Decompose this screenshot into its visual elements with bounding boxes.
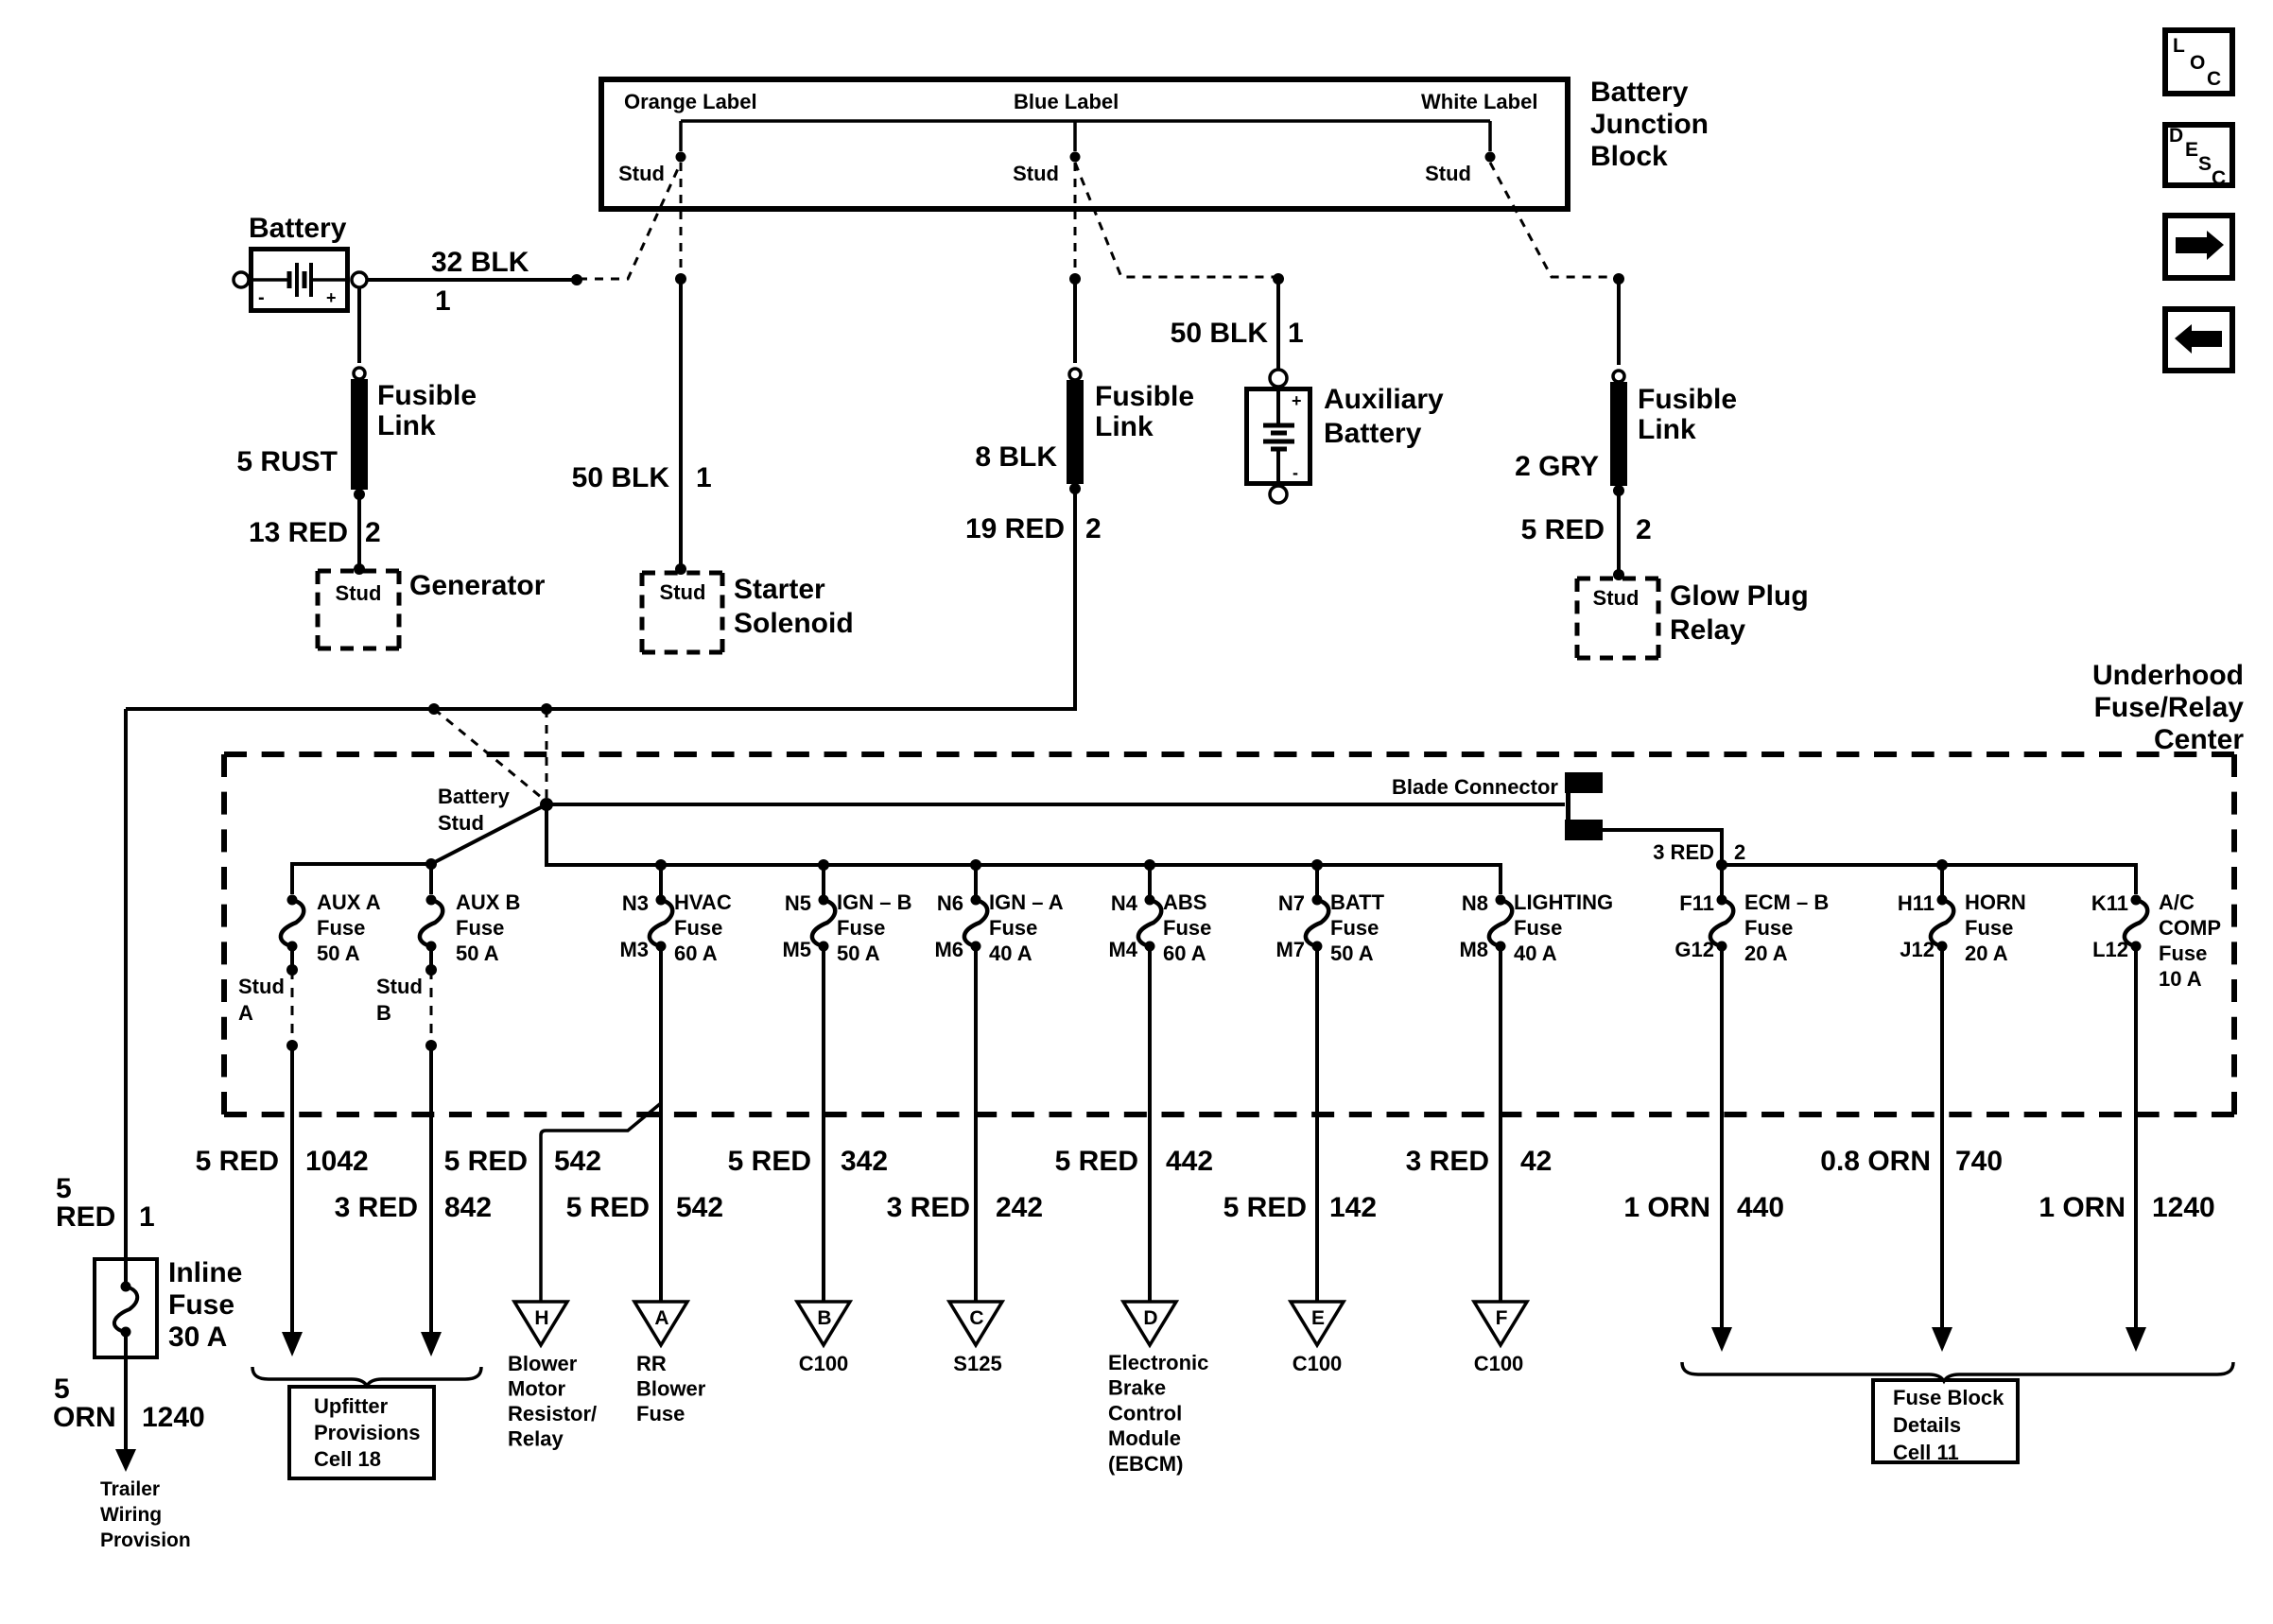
svg-text:10 A: 10 A xyxy=(2159,967,2202,991)
svg-text:5 RED: 5 RED xyxy=(1223,1192,1307,1223)
svg-text:5 RUST: 5 RUST xyxy=(236,446,338,477)
wire 8 BLK xyxy=(975,279,1075,473)
svg-text:5 RED: 5 RED xyxy=(1055,1146,1138,1177)
label 0.8 ORN 740 xyxy=(1820,1146,2003,1177)
svg-text:Motor: Motor xyxy=(508,1377,566,1401)
auxiliary battery label xyxy=(1324,384,1444,449)
svg-text:L12: L12 xyxy=(2092,938,2128,961)
svg-text:Relay: Relay xyxy=(1670,614,1745,646)
label 5 RED 1 xyxy=(56,1173,155,1233)
svg-text:Solenoid: Solenoid xyxy=(734,608,854,639)
svg-text:440: 440 xyxy=(1737,1192,1784,1223)
svg-text:13 RED: 13 RED xyxy=(249,517,348,548)
svg-text:3 RED: 3 RED xyxy=(1406,1146,1489,1177)
svg-text:M5: M5 xyxy=(782,938,811,961)
svg-text:3 RED: 3 RED xyxy=(1653,840,1714,864)
bus wire to fuse row xyxy=(547,804,1501,894)
wire 5 RED 342 xyxy=(822,946,825,1302)
blade connector xyxy=(1392,772,1603,840)
svg-text:Fuse: Fuse xyxy=(1514,916,1562,940)
svg-text:Fuse/Relay: Fuse/Relay xyxy=(2094,692,2245,723)
svg-text:Wiring: Wiring xyxy=(100,1504,162,1526)
svg-text:5 RED: 5 RED xyxy=(196,1146,279,1177)
svg-text:Auxiliary: Auxiliary xyxy=(1324,384,1444,415)
svg-text:1: 1 xyxy=(435,285,451,317)
svg-text:32 BLK: 32 BLK xyxy=(431,247,529,278)
bus wire to blade connector xyxy=(547,803,1565,806)
starter solenoid label xyxy=(734,574,854,639)
generator label xyxy=(409,570,546,601)
svg-text:Brake: Brake xyxy=(1108,1376,1166,1400)
wire 3 RED 2 from blade connector xyxy=(1603,830,1745,865)
svg-text:G12: G12 xyxy=(1674,938,1714,961)
stud A link xyxy=(238,946,298,1051)
battery junction block title xyxy=(1590,77,1709,172)
glow plug relay label xyxy=(1670,580,1809,646)
svg-text:Blower: Blower xyxy=(636,1377,706,1401)
svg-text:242: 242 xyxy=(996,1192,1043,1223)
svg-text:Cell 11: Cell 11 xyxy=(1893,1441,1959,1464)
svg-text:ORN: ORN xyxy=(53,1402,116,1433)
svg-text:1 ORN: 1 ORN xyxy=(2039,1192,2126,1223)
wire 5 RED 542 to A xyxy=(659,946,663,1302)
svg-text:Glow Plug: Glow Plug xyxy=(1670,580,1809,612)
svg-text:HORN: HORN xyxy=(1965,890,2026,914)
svg-text:Fuse: Fuse xyxy=(456,916,504,940)
svg-text:442: 442 xyxy=(1166,1146,1213,1177)
svg-text:C: C xyxy=(969,1307,983,1329)
svg-text:N3: N3 xyxy=(622,891,649,915)
dashed link orange stud down xyxy=(675,163,686,285)
fuse HVAC xyxy=(619,859,731,965)
svg-text:Fuse Block: Fuse Block xyxy=(1893,1386,2004,1409)
connector C xyxy=(949,1302,1002,1375)
fuse ECM - B xyxy=(1674,865,1829,965)
svg-text:RR: RR xyxy=(636,1352,667,1375)
dashed link blue stud to aux battery xyxy=(1075,163,1284,285)
svg-text:50 BLK: 50 BLK xyxy=(1171,318,1269,349)
svg-text:Fuse: Fuse xyxy=(1330,916,1379,940)
svg-text:BATT: BATT xyxy=(1330,890,1385,914)
connector A xyxy=(634,1302,706,1425)
svg-text:+: + xyxy=(1292,391,1302,410)
svg-text:AUX B: AUX B xyxy=(456,890,520,914)
svg-text:1240: 1240 xyxy=(142,1402,205,1433)
label 3 RED 242 xyxy=(887,1192,1043,1223)
label 5 RED 342 xyxy=(728,1146,888,1177)
stud B link xyxy=(376,946,437,1051)
svg-text:142: 142 xyxy=(1329,1192,1377,1223)
svg-text:2 GRY: 2 GRY xyxy=(1515,451,1599,482)
svg-text:M4: M4 xyxy=(1108,938,1137,961)
svg-text:C100: C100 xyxy=(1293,1352,1343,1375)
dashed link top wire to battery stud diagonal xyxy=(434,709,547,802)
svg-text:8 BLK: 8 BLK xyxy=(975,441,1057,473)
svg-text:30 A: 30 A xyxy=(168,1322,227,1353)
svg-text:C: C xyxy=(2207,68,2221,90)
svg-text:Fusible: Fusible xyxy=(1638,384,1737,415)
svg-text:N7: N7 xyxy=(1278,891,1305,915)
wire 3 RED 42 xyxy=(1499,946,1502,1302)
svg-text:50 A: 50 A xyxy=(837,942,880,965)
upfitter brace xyxy=(252,1367,481,1386)
label 5 RED 542 (A branch) xyxy=(566,1192,723,1223)
fuse block details box xyxy=(1873,1380,2018,1464)
svg-text:Stud: Stud xyxy=(438,811,484,835)
wire 5 RED 2 glow xyxy=(1521,492,1652,580)
battery junction block xyxy=(601,79,1568,209)
svg-text:1: 1 xyxy=(696,462,712,493)
svg-text:F11: F11 xyxy=(1679,891,1714,915)
svg-text:50 A: 50 A xyxy=(1330,942,1374,965)
svg-text:AUX A: AUX A xyxy=(317,890,381,914)
fuse A/C xyxy=(2091,890,2221,991)
svg-text:42: 42 xyxy=(1520,1146,1552,1177)
svg-text:5: 5 xyxy=(54,1373,70,1405)
svg-text:L: L xyxy=(2173,35,2185,57)
svg-text:Cell 18: Cell 18 xyxy=(314,1447,381,1471)
svg-text:S: S xyxy=(2198,153,2212,175)
svg-text:F: F xyxy=(1496,1307,1508,1329)
svg-text:Stud: Stud xyxy=(618,162,665,185)
svg-text:50 A: 50 A xyxy=(317,942,360,965)
svg-text:20 A: 20 A xyxy=(1965,942,2008,965)
wire 19 RED 2 xyxy=(126,490,1102,709)
svg-text:Stud: Stud xyxy=(336,581,382,605)
wire 50 BLK 1 to starter xyxy=(572,279,712,575)
wire 1 ORN 440 xyxy=(1711,946,1732,1352)
fuse HORN xyxy=(1898,865,2026,965)
dashed link battery to orange stud xyxy=(579,163,681,279)
right bus wire xyxy=(1716,859,2136,894)
svg-text:Control: Control xyxy=(1108,1401,1182,1425)
svg-text:5: 5 xyxy=(56,1173,72,1204)
label 1 ORN 1240 xyxy=(2039,1192,2214,1223)
svg-text:842: 842 xyxy=(444,1192,492,1223)
dashed link white stud to glow plug xyxy=(1490,163,1624,285)
wire 0.8 ORN 740 xyxy=(1932,946,1952,1352)
arrow left icon xyxy=(2165,309,2232,371)
svg-text:M8: M8 xyxy=(1459,938,1488,961)
svg-text:+: + xyxy=(326,288,337,307)
fusible link F2 xyxy=(1067,369,1194,494)
connector F xyxy=(1474,1302,1527,1375)
fuse BATT xyxy=(1275,859,1384,965)
svg-text:N5: N5 xyxy=(785,891,811,915)
svg-text:542: 542 xyxy=(676,1192,723,1223)
svg-text:342: 342 xyxy=(841,1146,888,1177)
svg-text:M3: M3 xyxy=(619,938,649,961)
svg-text:White Label: White Label xyxy=(1421,90,1537,113)
svg-text:M7: M7 xyxy=(1275,938,1305,961)
svg-text:D: D xyxy=(2169,125,2183,147)
wire 5 RED 442 xyxy=(1148,946,1152,1302)
svg-text:Stud: Stud xyxy=(1593,586,1640,610)
auxiliary battery xyxy=(1247,370,1310,503)
svg-text:Fuse: Fuse xyxy=(168,1289,234,1321)
svg-text:19 RED: 19 RED xyxy=(965,513,1065,544)
svg-text:Link: Link xyxy=(377,410,436,441)
svg-text:Starter: Starter xyxy=(734,574,825,605)
svg-text:5 RED: 5 RED xyxy=(566,1192,650,1223)
svg-text:1 ORN: 1 ORN xyxy=(1623,1192,1710,1223)
svg-text:Stud: Stud xyxy=(1425,162,1471,185)
dashed link top wire to battery stud vertical xyxy=(546,709,548,799)
svg-text:542: 542 xyxy=(554,1146,601,1177)
trailer wiring provision label xyxy=(100,1478,191,1551)
svg-text:Electronic: Electronic xyxy=(1108,1351,1208,1374)
label 5 RED 1042 xyxy=(196,1146,369,1177)
svg-text:Fuse: Fuse xyxy=(989,916,1037,940)
wire 5 RED 542 to H xyxy=(541,1103,661,1302)
svg-text:Upfitter: Upfitter xyxy=(314,1394,389,1418)
inline fuse 30A xyxy=(95,1257,242,1357)
label 5 RED 442 xyxy=(1055,1146,1213,1177)
svg-text:K11: K11 xyxy=(2091,891,2128,915)
svg-text:Battery: Battery xyxy=(249,213,347,244)
label 3 RED 42 xyxy=(1406,1146,1553,1177)
svg-text:Fuse: Fuse xyxy=(1163,916,1211,940)
svg-text:Orange Label: Orange Label xyxy=(624,90,757,113)
svg-text:1: 1 xyxy=(1288,318,1304,349)
svg-text:5 RED: 5 RED xyxy=(1521,514,1605,545)
generator stud box xyxy=(318,571,399,648)
wire 1 ORN 1240 xyxy=(2126,946,2146,1352)
svg-text:H11: H11 xyxy=(1898,891,1935,915)
fuse LIGHTING xyxy=(1459,890,1613,965)
fuse AUX A 50A xyxy=(281,890,381,965)
svg-text:Battery: Battery xyxy=(438,785,511,808)
wire 50 BLK 1 aux xyxy=(1171,279,1304,369)
wire 5 RED 1042 xyxy=(282,1045,303,1356)
fuse IGN - B xyxy=(782,859,911,965)
upfitter provisions box xyxy=(289,1387,434,1478)
svg-text:3 RED: 3 RED xyxy=(887,1192,970,1223)
svg-text:RED: RED xyxy=(56,1201,115,1233)
wire 2 GRY xyxy=(1515,279,1619,482)
starter solenoid stud box xyxy=(642,573,722,652)
svg-text:C100: C100 xyxy=(1474,1352,1524,1375)
svg-text:Battery: Battery xyxy=(1590,77,1689,108)
svg-text:IGN – A: IGN – A xyxy=(989,890,1064,914)
svg-text:60 A: 60 A xyxy=(1163,942,1206,965)
wire 3 RED 242 xyxy=(974,946,978,1302)
fusible link F1 (5 RUST) xyxy=(236,368,477,500)
svg-text:Resistor/: Resistor/ xyxy=(508,1402,597,1425)
svg-text:E: E xyxy=(2185,139,2198,161)
svg-text:Provision: Provision xyxy=(100,1529,191,1551)
svg-text:N6: N6 xyxy=(937,891,963,915)
svg-text:B: B xyxy=(817,1307,831,1329)
svg-text:Stud: Stud xyxy=(1013,162,1059,185)
svg-text:Stud: Stud xyxy=(376,975,423,998)
fuse IGN - A xyxy=(934,859,1063,965)
svg-text:A: A xyxy=(654,1307,668,1329)
svg-text:Link: Link xyxy=(1095,411,1154,442)
svg-text:Stud: Stud xyxy=(238,975,285,998)
svg-text:Stud: Stud xyxy=(660,580,706,604)
svg-text:Fuse: Fuse xyxy=(2159,942,2207,965)
connector D xyxy=(1108,1302,1208,1476)
DESC icon xyxy=(2165,125,2232,189)
label 3 RED 842 xyxy=(335,1192,492,1223)
svg-text:Battery: Battery xyxy=(1324,418,1422,449)
svg-text:COMP: COMP xyxy=(2159,916,2221,940)
svg-text:Fusible: Fusible xyxy=(377,380,477,411)
svg-text:Module: Module xyxy=(1108,1426,1181,1450)
svg-text:Blower: Blower xyxy=(508,1352,578,1375)
wire left feed from 19RED junction xyxy=(124,709,128,1257)
wire 32 BLK 1 xyxy=(367,247,582,317)
svg-text:Link: Link xyxy=(1638,414,1696,445)
label 1 ORN 440 xyxy=(1623,1192,1784,1223)
svg-text:C: C xyxy=(2212,167,2226,189)
svg-text:Fusible: Fusible xyxy=(1095,381,1194,412)
svg-text:2: 2 xyxy=(365,517,381,548)
svg-text:Underhood: Underhood xyxy=(2092,660,2244,691)
svg-text:50 A: 50 A xyxy=(456,942,499,965)
wire 5 ORN 1240 xyxy=(53,1335,205,1472)
svg-text:60 A: 60 A xyxy=(674,942,718,965)
svg-text:ABS: ABS xyxy=(1163,890,1206,914)
svg-text:D: D xyxy=(1143,1307,1157,1329)
svg-text:2: 2 xyxy=(1085,513,1102,544)
battery stud node xyxy=(438,785,553,835)
underhood fuse relay center box xyxy=(224,754,2234,1114)
svg-text:Fuse: Fuse xyxy=(1744,916,1793,940)
aux bus wire xyxy=(292,864,431,894)
svg-text:1042: 1042 xyxy=(305,1146,369,1177)
svg-text:O: O xyxy=(2190,52,2205,74)
junction node dots on top wire xyxy=(428,703,552,715)
svg-text:HVAC: HVAC xyxy=(674,890,732,914)
wire 5 RED 142 xyxy=(1315,946,1319,1302)
fusible link F3 xyxy=(1610,371,1737,496)
svg-text:N4: N4 xyxy=(1111,891,1138,915)
glow plug relay stud box xyxy=(1577,579,1658,658)
svg-text:0.8 ORN: 0.8 ORN xyxy=(1820,1146,1931,1177)
svg-text:Generator: Generator xyxy=(409,570,546,601)
connector H xyxy=(508,1302,597,1451)
svg-text:20 A: 20 A xyxy=(1744,942,1788,965)
svg-text:A/C: A/C xyxy=(2159,890,2195,914)
svg-text:H: H xyxy=(534,1307,548,1329)
svg-text:C100: C100 xyxy=(799,1352,849,1375)
label 5 RED 542 (H branch) xyxy=(444,1146,601,1177)
svg-text:Fuse: Fuse xyxy=(636,1402,685,1425)
svg-text:Details: Details xyxy=(1893,1413,1961,1437)
svg-text:Relay: Relay xyxy=(508,1427,564,1451)
svg-text:1240: 1240 xyxy=(2152,1192,2215,1223)
svg-text:S125: S125 xyxy=(953,1352,1001,1375)
svg-text:2: 2 xyxy=(1636,514,1652,545)
svg-text:50 BLK: 50 BLK xyxy=(572,462,670,493)
svg-text:-: - xyxy=(1293,463,1298,482)
svg-text:B: B xyxy=(376,1001,391,1025)
svg-text:A: A xyxy=(238,1001,253,1025)
fuse block details brace xyxy=(1682,1362,2233,1381)
wire 13 RED 2 xyxy=(249,495,381,575)
svg-text:LIGHTING: LIGHTING xyxy=(1514,890,1613,914)
svg-text:40 A: 40 A xyxy=(989,942,1032,965)
svg-text:Fuse: Fuse xyxy=(317,916,365,940)
svg-text:E: E xyxy=(1311,1307,1325,1329)
svg-text:ECM – B: ECM – B xyxy=(1744,890,1829,914)
LOC icon xyxy=(2165,30,2232,94)
svg-text:5 RED: 5 RED xyxy=(728,1146,811,1177)
svg-text:Inline: Inline xyxy=(168,1257,242,1288)
svg-text:Block: Block xyxy=(1590,141,1668,172)
svg-text:Trailer: Trailer xyxy=(100,1478,160,1500)
svg-text:Fuse: Fuse xyxy=(837,916,885,940)
svg-text:(EBCM): (EBCM) xyxy=(1108,1452,1183,1476)
wire battery positive down xyxy=(357,288,361,363)
svg-text:Blue Label: Blue Label xyxy=(1014,90,1119,113)
svg-text:3 RED: 3 RED xyxy=(335,1192,418,1223)
battery xyxy=(234,213,367,311)
diagonal wire aux bus to battery stud xyxy=(425,804,547,870)
label 5 RED 142 xyxy=(1223,1192,1377,1223)
svg-text:M6: M6 xyxy=(934,938,963,961)
svg-text:-: - xyxy=(258,287,265,308)
dashed link blue stud down xyxy=(1069,163,1081,285)
svg-text:IGN – B: IGN – B xyxy=(837,890,911,914)
underhood fuse relay center title xyxy=(2092,660,2244,755)
arrow right icon xyxy=(2165,216,2232,278)
svg-text:1: 1 xyxy=(139,1201,155,1233)
svg-text:5 RED: 5 RED xyxy=(444,1146,528,1177)
svg-text:740: 740 xyxy=(1955,1146,2003,1177)
svg-text:N8: N8 xyxy=(1462,891,1488,915)
svg-text:Fuse: Fuse xyxy=(674,916,722,940)
svg-text:Fuse: Fuse xyxy=(1965,916,2013,940)
svg-text:Blade Connector: Blade Connector xyxy=(1392,775,1558,799)
svg-text:J12: J12 xyxy=(1900,938,1935,961)
svg-text:40 A: 40 A xyxy=(1514,942,1557,965)
svg-text:Center: Center xyxy=(2154,724,2244,755)
wire 3 RED 842 xyxy=(421,1045,442,1356)
fuse ABS xyxy=(1108,859,1211,965)
svg-text:2: 2 xyxy=(1734,840,1745,864)
fuse AUX B 50A xyxy=(420,890,521,965)
connector E xyxy=(1291,1302,1344,1375)
svg-text:Provisions: Provisions xyxy=(314,1421,420,1444)
connector B xyxy=(797,1302,850,1375)
svg-text:Junction: Junction xyxy=(1590,109,1709,140)
